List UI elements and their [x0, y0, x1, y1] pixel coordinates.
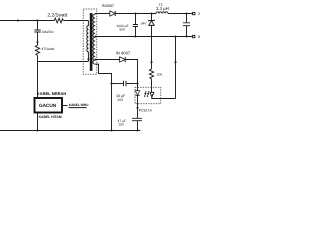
transformer core — [90, 13, 93, 71]
node dot 0V at secondary tap — [95, 36, 97, 38]
node dot bottom rail at 47uF — [136, 129, 138, 131]
diode D2 IN 4007 — [120, 57, 126, 62]
svg-text:680/25v: 680/25v — [42, 30, 54, 34]
wire 0V rail — [95, 36, 192, 38]
resistor 100 — [149, 69, 153, 79]
node dot opto cathode below box — [136, 107, 138, 109]
wire opto cathode to 47uF — [137, 108, 139, 118]
capacitor 10uF 25V — [124, 81, 127, 86]
svg-text:3.3 µH: 3.3 µH — [156, 6, 169, 11]
svg-text:47/1watt: 47/1watt — [41, 47, 54, 51]
opto LED — [135, 91, 139, 96]
wire 10uF to opto LED junction — [126, 83, 138, 85]
wire top AC rail left segment — [0, 20, 54, 22]
svg-text:25V: 25V — [117, 98, 124, 102]
svg-text:IN4007: IN4007 — [102, 4, 114, 8]
wire D2 to corner and down — [125, 60, 137, 84]
wire top AC rail right segment — [63, 20, 88, 22]
wire GACUN bottom lead — [37, 113, 39, 131]
wire +rail after D1 — [115, 13, 156, 15]
node dot top rail at snubber chain — [36, 19, 38, 21]
node dot opto LED feed — [136, 82, 138, 84]
node dot zener top — [150, 12, 152, 14]
wire opto emitter out to riser — [152, 97, 176, 99]
svg-text:IN 4007: IN 4007 — [116, 50, 131, 55]
svg-text:100: 100 — [157, 72, 163, 76]
wire zener chain to resistor — [151, 62, 153, 69]
node dot 0V at output cap — [185, 35, 187, 37]
svg-text:24V: 24V — [141, 21, 148, 25]
node dot 0V at feedback riser — [174, 35, 176, 37]
capacitor output filter — [183, 14, 190, 37]
svg-text:KABEL BIRU: KABEL BIRU — [69, 103, 89, 107]
capacitor 47uF 25V — [132, 118, 142, 120]
node dot bottom rail at aux — [110, 129, 112, 131]
resistor 47/1watt — [35, 45, 39, 55]
wire cap to resistor — [37, 32, 39, 45]
wire 47uF to bottom rail — [137, 121, 139, 131]
node dot on riser — [174, 61, 176, 63]
node dot primary bottom lead — [87, 58, 89, 60]
node dot on top rail — [17, 19, 19, 21]
wire +rail after L1 to output — [168, 13, 193, 15]
svg-text:KABEL MERAH: KABEL MERAH — [37, 91, 67, 96]
GACUN module box — [35, 98, 63, 113]
wire bottom rail — [0, 130, 140, 132]
terminal 0V output — [193, 35, 195, 37]
capacitor 680/25v — [34, 30, 40, 32]
inductor L1 3.3uH — [156, 12, 168, 14]
wire snubber chain upper lead — [37, 21, 39, 30]
node dot bottom rail at GACUN lead — [36, 129, 38, 131]
node dot 0V at 1000uF — [134, 35, 136, 37]
wire resistor to opto collector — [151, 79, 153, 88]
wire tee to transformer primary bottom — [38, 61, 89, 63]
svg-text:2,2/1watt: 2,2/1watt — [47, 13, 67, 19]
wire feedback riser up to 0V rail — [175, 37, 177, 99]
wire secondary top tap to diode D1 — [95, 13, 110, 16]
svg-text:0V: 0V — [198, 35, 200, 39]
zener diode 24V — [151, 14, 153, 21]
wire resistor down to tee — [37, 55, 39, 61]
transformer T1 dashed box — [83, 9, 97, 74]
diode D1 IN4007 — [110, 11, 115, 16]
opto coupler U1 dashed box — [135, 87, 161, 104]
resistor R 2,2/1watt (series on top rail) — [54, 18, 63, 23]
wire aux tap to diode D2 — [95, 59, 119, 61]
svg-text:50V: 50V — [119, 27, 126, 31]
opto phototransistor — [150, 88, 154, 92]
node dot aux tap — [95, 59, 97, 61]
terminal 24V output — [193, 12, 195, 14]
node dot 1000uF top — [134, 12, 136, 14]
opto light arrows — [145, 91, 147, 97]
svg-text:KABEL HITAM: KABEL HITAM — [39, 115, 62, 119]
wire feed to 10uF cap — [112, 83, 124, 85]
wire secondary bottom lead to aux rail — [95, 64, 111, 130]
svg-text:GACUN: GACUN — [39, 103, 57, 108]
wire junction down into opto box — [137, 84, 139, 91]
node dot zener chain junction — [150, 61, 152, 63]
svg-text:PC817A: PC817A — [139, 109, 153, 113]
transformer secondary winding — [93, 14, 95, 64]
capacitor 1000uF 50V — [133, 14, 138, 37]
node dot output cap top — [185, 12, 187, 14]
wire KABEL BIRU stub — [62, 105, 68, 107]
transformer primary winding — [87, 21, 89, 62]
wire tee down to GACUN box — [37, 62, 39, 99]
svg-text:25V: 25V — [118, 122, 125, 126]
node dot between cap and resistor — [37, 41, 39, 43]
svg-text:24V: 24V — [198, 12, 200, 16]
node dot feed junction — [110, 82, 112, 84]
